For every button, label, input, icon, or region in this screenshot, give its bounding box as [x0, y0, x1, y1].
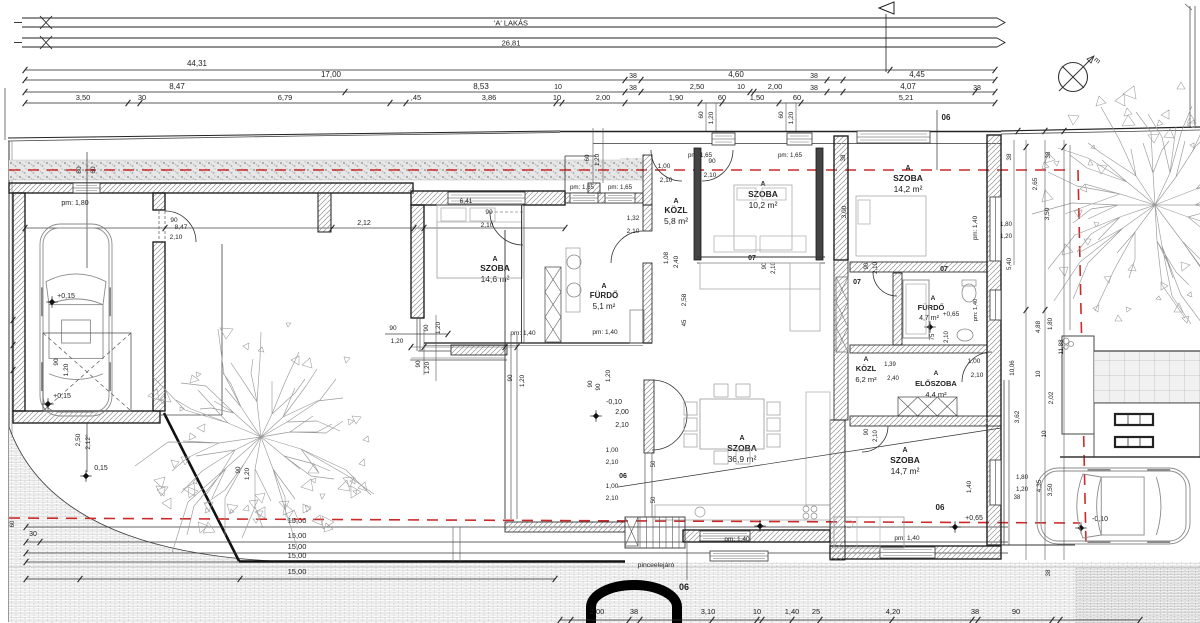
svg-text:A: A [673, 198, 678, 205]
svg-text:15,00: 15,00 [288, 567, 307, 576]
svg-text:+0,65: +0,65 [943, 311, 960, 318]
svg-text:3,86: 3,86 [482, 93, 497, 102]
svg-text:1,50: 1,50 [750, 93, 765, 102]
svg-text:1,00: 1,00 [606, 447, 619, 454]
svg-text:KÖZL: KÖZL [856, 364, 877, 373]
svg-text:90: 90 [53, 358, 60, 366]
svg-text:4,88: 4,88 [1035, 320, 1042, 333]
svg-text:2,65: 2,65 [1032, 177, 1039, 190]
svg-text:60: 60 [698, 111, 705, 119]
svg-text:A: A [931, 295, 936, 302]
svg-text:1,80: 1,80 [1000, 221, 1013, 228]
svg-text:SZOBA: SZOBA [748, 189, 778, 199]
svg-text:8,53: 8,53 [473, 82, 489, 91]
svg-text:A: A [492, 256, 497, 263]
svg-text:17,00: 17,00 [321, 70, 342, 79]
svg-text:3,50: 3,50 [1044, 207, 1051, 220]
svg-text:38: 38 [840, 154, 847, 161]
svg-text:2,10: 2,10 [606, 495, 619, 502]
svg-text:90: 90 [1012, 607, 1020, 616]
svg-text:1,20: 1,20 [788, 111, 795, 124]
svg-text:14,7 m²: 14,7 m² [891, 466, 920, 476]
svg-text:pm: 1,65: pm: 1,65 [778, 152, 803, 159]
svg-text:5,40: 5,40 [1006, 257, 1013, 270]
svg-text:90: 90 [507, 374, 514, 381]
svg-text:-0,10: -0,10 [606, 399, 622, 406]
svg-text:3,00: 3,00 [841, 205, 848, 218]
svg-text:1,08: 1,08 [663, 251, 670, 264]
svg-text:1,32: 1,32 [627, 215, 640, 222]
svg-text:80: 80 [76, 166, 83, 174]
svg-text:2,10: 2,10 [660, 177, 673, 184]
svg-text:2,40: 2,40 [887, 376, 899, 382]
svg-text:FÜRDŐ: FÜRDŐ [918, 303, 945, 312]
svg-text:+0,15: +0,15 [53, 393, 71, 400]
svg-text:90: 90 [415, 360, 422, 367]
svg-text:4,60: 4,60 [728, 70, 744, 79]
svg-text:38: 38 [971, 607, 979, 616]
svg-text:1,40: 1,40 [966, 480, 973, 493]
svg-text:8,47: 8,47 [169, 82, 185, 91]
svg-text:90: 90 [485, 209, 493, 216]
svg-text:pm: 1,40: pm: 1,40 [510, 330, 536, 337]
svg-text:25: 25 [812, 607, 820, 616]
svg-text:10: 10 [1041, 430, 1048, 437]
svg-text:pinceelejáró: pinceelejáró [638, 562, 675, 569]
svg-text:60: 60 [793, 93, 801, 102]
svg-text:KÖZL: KÖZL [664, 205, 687, 215]
svg-text:2,10: 2,10 [944, 331, 950, 343]
svg-text:2,40: 2,40 [673, 255, 680, 268]
svg-text:90: 90 [170, 217, 178, 224]
svg-text:pm: 1,80: pm: 1,80 [61, 200, 88, 207]
svg-text:A: A [905, 165, 910, 172]
svg-text:6,2 m²: 6,2 m² [855, 375, 877, 384]
svg-text:SZOBA: SZOBA [890, 455, 920, 465]
svg-text:30: 30 [138, 93, 146, 102]
svg-text:2,12°: 2,12° [84, 434, 92, 450]
svg-text:10: 10 [553, 93, 561, 102]
svg-text:2,50: 2,50 [690, 82, 705, 91]
svg-text:4,07: 4,07 [900, 82, 916, 91]
svg-text:60: 60 [10, 520, 16, 527]
svg-text:5,8 m²: 5,8 m² [664, 216, 688, 226]
svg-text:ELŐSZOBA: ELŐSZOBA [915, 379, 957, 388]
svg-text:,45: ,45 [411, 93, 421, 102]
svg-text:38: 38 [1014, 495, 1021, 501]
svg-text:4,35: 4,35 [1036, 479, 1043, 492]
svg-text:2,58: 2,58 [681, 293, 688, 306]
svg-text:1,80: 1,80 [1047, 317, 1054, 330]
svg-text:10,2 m²: 10,2 m² [749, 200, 778, 210]
svg-text:3,50: 3,50 [1047, 483, 1054, 496]
svg-text:2,10: 2,10 [170, 234, 183, 241]
svg-text:38: 38 [810, 85, 818, 92]
svg-text:2,10: 2,10 [873, 262, 879, 274]
svg-text:1,20: 1,20 [519, 374, 526, 387]
svg-text:8,47: 8,47 [175, 224, 188, 231]
svg-text:1,20: 1,20 [244, 467, 251, 480]
svg-text:5,21: 5,21 [899, 93, 914, 102]
svg-text:90: 90 [708, 158, 716, 165]
svg-text:1,00: 1,00 [968, 358, 981, 365]
svg-text:5,1 m²: 5,1 m² [593, 302, 616, 311]
svg-text:06: 06 [936, 503, 945, 512]
svg-text:SZOBA: SZOBA [727, 443, 757, 453]
svg-text:pm: 1,40: pm: 1,40 [592, 329, 618, 336]
svg-text:A: A [934, 370, 939, 377]
svg-text:38: 38 [1006, 153, 1013, 160]
svg-text:90: 90 [595, 383, 602, 390]
svg-text:14,2 m²: 14,2 m² [894, 184, 923, 194]
svg-text:10,06: 10,06 [1009, 360, 1016, 376]
svg-text:07: 07 [748, 255, 756, 262]
svg-text:4,45: 4,45 [909, 70, 925, 79]
svg-text:3,50: 3,50 [76, 93, 91, 102]
svg-text:A: A [739, 435, 744, 442]
svg-text:A: A [760, 181, 765, 188]
svg-text:38: 38 [629, 73, 637, 80]
svg-text:10: 10 [1035, 370, 1042, 377]
svg-text:pm: 1,40: pm: 1,40 [724, 536, 750, 543]
svg-text:2,10: 2,10 [873, 430, 879, 442]
svg-text:2,10: 2,10 [704, 172, 717, 179]
svg-text:15,00: 15,00 [288, 531, 307, 540]
svg-text:SZOBA: SZOBA [893, 173, 923, 183]
svg-text:1,20: 1,20 [391, 338, 404, 345]
svg-text:3,10: 3,10 [701, 607, 716, 616]
svg-text:30: 30 [29, 531, 37, 538]
svg-text:pm: 1,65: pm: 1,65 [608, 184, 633, 191]
svg-text:44,31: 44,31 [187, 59, 208, 68]
svg-text:4,20: 4,20 [886, 607, 901, 616]
svg-text:60: 60 [584, 154, 591, 161]
svg-text:10: 10 [554, 84, 562, 91]
svg-text:36,9 m²: 36,9 m² [728, 454, 757, 464]
svg-text:1,20: 1,20 [424, 361, 431, 374]
svg-text:A: A [902, 447, 907, 454]
svg-text:90: 90 [235, 466, 242, 473]
svg-text:pm: 1,40: pm: 1,40 [972, 215, 979, 240]
svg-text:1,20: 1,20 [605, 369, 612, 382]
svg-text:0,15: 0,15 [94, 465, 108, 472]
svg-text:07: 07 [940, 266, 948, 273]
svg-text:2,10: 2,10 [615, 422, 629, 429]
svg-text:06: 06 [619, 473, 627, 480]
svg-text:10: 10 [753, 607, 761, 616]
svg-text:3,62: 3,62 [1014, 410, 1021, 423]
svg-text:38: 38 [1045, 151, 1052, 158]
svg-text:07: 07 [853, 279, 861, 286]
svg-text:38: 38 [630, 607, 638, 616]
svg-text:1,80: 1,80 [1016, 474, 1029, 481]
svg-text:2,12: 2,12 [357, 220, 371, 227]
svg-text:2,00: 2,00 [590, 607, 605, 616]
svg-text:1,40: 1,40 [785, 607, 800, 616]
svg-text:1,00: 1,00 [658, 163, 671, 170]
svg-text:pm: 1,40: pm: 1,40 [973, 299, 979, 322]
svg-text:38: 38 [810, 73, 818, 80]
svg-text:-0,10: -0,10 [1092, 516, 1108, 523]
svg-text:6,41: 6,41 [460, 198, 473, 205]
svg-text:1,20: 1,20 [594, 153, 601, 166]
svg-text:pm: 1,40: pm: 1,40 [894, 535, 920, 542]
svg-text:2,10: 2,10 [971, 372, 984, 379]
svg-text:38: 38 [629, 85, 637, 92]
svg-text:1,20: 1,20 [708, 111, 715, 124]
svg-text:2,00: 2,00 [768, 82, 783, 91]
svg-text:90: 90 [389, 325, 397, 332]
svg-text:26,81: 26,81 [502, 38, 521, 47]
svg-text:15,00: 15,00 [288, 551, 307, 560]
svg-text:1,20: 1,20 [1000, 233, 1013, 240]
svg-text:2,00: 2,00 [596, 93, 611, 102]
svg-text:2,02: 2,02 [1048, 391, 1055, 404]
svg-text:60: 60 [718, 93, 726, 102]
svg-text:1,20: 1,20 [1016, 486, 1029, 493]
svg-text:1,20: 1,20 [63, 363, 70, 376]
svg-text:38: 38 [1045, 569, 1052, 576]
svg-text:1,39: 1,39 [884, 362, 896, 368]
svg-text:+0,65: +0,65 [965, 515, 983, 522]
svg-text:90: 90 [864, 428, 870, 435]
svg-text:60: 60 [90, 166, 97, 174]
svg-text:90: 90 [864, 262, 870, 269]
svg-text:+0,15: +0,15 [57, 293, 75, 300]
svg-text:2,00: 2,00 [615, 409, 629, 416]
svg-text:75: 75 [930, 333, 936, 340]
svg-text:06: 06 [942, 113, 951, 122]
svg-text:90: 90 [587, 380, 594, 387]
svg-text:10: 10 [737, 84, 745, 91]
svg-text:38: 38 [973, 85, 981, 92]
svg-text:06: 06 [679, 582, 689, 592]
svg-text:6,79: 6,79 [278, 93, 293, 102]
svg-text:2,50: 2,50 [75, 433, 82, 446]
svg-text:11,88: 11,88 [1058, 339, 1065, 355]
svg-text:'A' LAKÁS: 'A' LAKÁS [494, 18, 528, 27]
svg-text:1,00: 1,00 [606, 483, 619, 490]
svg-text:2,10: 2,10 [481, 222, 494, 229]
svg-text:2,10: 2,10 [606, 459, 619, 466]
svg-text:45: 45 [682, 319, 688, 326]
svg-text:1,90: 1,90 [669, 93, 684, 102]
svg-text:60: 60 [778, 111, 785, 119]
svg-text:FÜRDŐ: FÜRDŐ [590, 291, 618, 300]
svg-text:A: A [601, 283, 606, 290]
svg-text:A: A [864, 356, 869, 363]
